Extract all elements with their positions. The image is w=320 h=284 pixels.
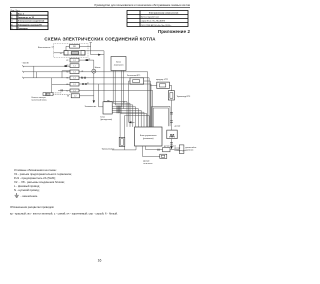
svg-text:Запальник ИТ1: Запальник ИТ1	[127, 75, 140, 77]
display sensor ДД	[167, 130, 177, 139]
svg-text:Условные обозначения на схеме:: Условные обозначения на схеме:	[14, 168, 57, 172]
cable loop to sensor ДД inner	[153, 108, 168, 127]
wire control to flame electrode	[112, 146, 136, 150]
svg-text:Блок управления: Блок управления	[140, 135, 157, 137]
wire sensor 1	[112, 107, 135, 127]
svg-text:Проверил: Проверил	[18, 28, 29, 30]
wire fuse left	[66, 46, 70, 50]
igniter ИТ1	[130, 78, 144, 84]
mains line N	[22, 71, 70, 73]
svg-text:зажигания: зажигания	[114, 65, 124, 67]
draft sensor	[160, 154, 167, 158]
connector marks on X6 wire	[82, 77, 86, 85]
tap wire junction B	[36, 72, 38, 78]
tap wire junction A	[33, 66, 35, 78]
svg-text:Заземление: Заземление	[85, 106, 98, 108]
svg-text:кр: кр	[89, 59, 91, 61]
svg-text:FU1: FU1	[73, 46, 76, 48]
svg-text:СХЕМА ЭЛЕКТРИЧЕСКИХ СОЕДИНЕНИЙ: СХЕМА ЭЛЕКТРИЧЕСКИХ СОЕДИНЕНИЙ КОТЛА	[44, 36, 156, 41]
svg-text:X1 - разъем предохранительного: X1 - разъем предохранительного терминала…	[14, 172, 72, 176]
wire control to draft sensor	[142, 146, 160, 156]
svg-text:~220 В: ~220 В	[22, 62, 30, 64]
wire ИТ2 left	[150, 84, 157, 86]
title block table (top right)	[127, 11, 188, 27]
svg-text:N - нулевой провод;: N - нулевой провод;	[14, 188, 40, 192]
header running title text	[94, 3, 190, 7]
svg-text:X5: X5	[66, 78, 68, 80]
pointer arrow into control unit	[128, 121, 134, 123]
svg-text:ДД: ДД	[170, 133, 175, 137]
svg-text:1 2: 1 2	[73, 60, 75, 62]
ground symbol in legend	[15, 193, 19, 197]
wire electrode left lead	[120, 114, 147, 138]
svg-text:L - фазовый провод;: L - фазовый провод;	[14, 184, 40, 188]
svg-text:Утверждено отделом ТК: Утверждено отделом ТК	[18, 24, 43, 26]
wire ИТ1 left to control	[129, 81, 130, 122]
svg-text:Термоэлемент: Термоэлемент	[102, 149, 115, 151]
wire ignition 2	[115, 71, 133, 127]
mains line L	[22, 65, 70, 67]
svg-text:Электросхема соединений: Электросхема соединений	[18, 20, 45, 23]
mains line PE	[22, 77, 70, 79]
level sensor	[163, 148, 171, 152]
connector X4	[66, 70, 79, 74]
wire ignition 4	[122, 71, 124, 109]
svg-text:Изм. 3: Изм. 3	[18, 14, 25, 16]
connector X7	[66, 89, 79, 92]
svg-text:- заземление.: - заземление.	[21, 195, 39, 198]
svg-text:1 2: 1 2	[74, 96, 76, 98]
wire X4 to harness	[79, 72, 148, 127]
svg-text:серии КС-Г, КС-ГВ, АОГВ: серии КС-Г, КС-ГВ, АОГВ	[141, 20, 166, 23]
svg-text:Приложение 2: Приложение 2	[158, 29, 191, 34]
svg-text:16: 16	[98, 259, 102, 263]
connector marks on sensor wires	[117, 106, 121, 113]
svg-text:тяги котла: тяги котла	[143, 163, 153, 165]
thermo fuse ИТ2	[157, 82, 170, 88]
wire top bus to ignition	[91, 54, 104, 56]
wire pump return	[99, 84, 104, 107]
title block texts	[141, 13, 179, 27]
wire X4-X5 link	[62, 71, 70, 78]
wire control to level sensor	[146, 146, 163, 150]
arrow on top bus	[98, 54, 101, 56]
svg-text:жз: жз	[87, 83, 89, 85]
svg-text:ООО ПКФ АТОН г.Кр.Луч 2013 г.: ООО ПКФ АТОН г.Кр.Луч 2013 г.	[141, 24, 172, 27]
wire X5 to harness	[79, 78, 149, 127]
svg-text:Электрическая схема котлов: Электрическая схема котлов	[149, 13, 179, 15]
svg-text:датчик: датчик	[175, 126, 181, 128]
wire ИТ3 down to sensor ДД	[170, 100, 173, 130]
svg-text:X2 ... X8 - разъемы соединения: X2 ... X8 - разъемы соединения блоков;	[14, 180, 65, 184]
wire below ДД with arrow	[170, 139, 173, 150]
flame electrode body	[119, 137, 125, 150]
svg-text:X2: X2	[66, 60, 68, 62]
switch label Выключатель	[38, 47, 54, 49]
wire X6 to harness	[79, 84, 151, 127]
pressure sensor label	[185, 147, 197, 152]
draft sensor label Датчик тяги	[143, 161, 153, 166]
fuse FU1	[70, 45, 80, 49]
svg-text:Термозонд ИТ3: Термозонд ИТ3	[177, 96, 191, 98]
svg-text:Котлы парапетные: Котлы парапетные	[141, 17, 160, 19]
wire fuse right to node L	[80, 45, 91, 47]
wire electrode right lead	[124, 116, 149, 138]
wire vertical feeder to harness	[104, 51, 127, 127]
svg-text:FU1 - предохранитель 2А (5х20): FU1 - предохранитель 2А (5х20);	[14, 176, 56, 180]
wire colour micro-labels	[81, 59, 125, 104]
cable loop to sensor ДД outer	[152, 106, 170, 127]
svg-text:1 2: 1 2	[73, 78, 75, 80]
wire X2 to pump	[79, 59, 94, 61]
wire ignition 1	[113, 71, 130, 127]
node L vertical riser	[90, 43, 92, 55]
svg-text:X6: X6	[66, 84, 68, 86]
ignition unit	[111, 57, 126, 71]
wire X1 left	[54, 52, 65, 54]
connector X5	[66, 76, 79, 80]
gas valve label	[32, 97, 48, 102]
header horizontal rule	[10, 7, 190, 9]
svg-text:Выключатель: Выключатель	[38, 47, 51, 49]
svg-text:магнитный блока: магнитный блока	[32, 99, 48, 102]
wire sensor 2	[112, 109, 138, 127]
label датчик температуры	[174, 148, 186, 152]
gas valve Клапан	[43, 93, 53, 96]
revision table row texts	[11, 14, 45, 30]
svg-text:кр: кр	[82, 70, 84, 72]
wire valve dashed	[53, 93, 71, 95]
control board dashed enclosure	[54, 44, 89, 58]
svg-text:X8: X8	[67, 96, 69, 98]
svg-text:X4: X4	[66, 72, 68, 74]
wire to pressure sensor	[170, 149, 179, 151]
svg-text:1 2: 1 2	[73, 84, 75, 86]
svg-text:(фотодатчик): (фотодатчик)	[101, 118, 113, 121]
terminal block X1	[64, 51, 85, 55]
wire X1 right	[85, 50, 104, 52]
svg-text:M: M	[93, 71, 95, 73]
svg-text:(розжигом): (розжигом)	[143, 138, 154, 140]
wire ignition 3	[120, 71, 122, 107]
wire PE branch to X6	[52, 78, 70, 93]
connector X8	[67, 94, 80, 98]
control unit	[135, 127, 163, 146]
wire X7 left stub	[58, 89, 70, 91]
connector mark on X2 wire	[86, 59, 89, 61]
connector X3	[66, 64, 79, 68]
connector mark on X3 wire	[65, 65, 67, 67]
svg-text:сер: сер	[107, 100, 110, 102]
thermo probe ИТ3	[168, 91, 174, 100]
svg-text:Блок: Блок	[116, 62, 121, 64]
revision table (left)	[11, 12, 49, 30]
svg-text:Замена кр. от 10: Замена кр. от 10	[18, 17, 35, 19]
pressure sensor	[179, 145, 184, 154]
svg-text:кр - красный; жз - желто-зеле: кр - красный; жз - желто-зеленый; с - си…	[10, 211, 118, 215]
svg-text:Обозначения расцветки проводов: Обозначения расцветки проводов:	[10, 205, 54, 209]
svg-text:1 2: 1 2	[73, 66, 75, 68]
wire ИТ1 right	[144, 81, 151, 127]
wire X7 to harness	[79, 90, 153, 127]
legend heading	[14, 168, 72, 192]
svg-text:давления: давления	[185, 150, 193, 152]
svg-text:кч: кч	[124, 102, 126, 104]
wire X8 to ground	[80, 95, 94, 97]
svg-text:Насос: Насос	[95, 67, 101, 69]
connector X2	[66, 58, 79, 62]
connector X6	[66, 82, 79, 86]
ground arrow	[93, 100, 95, 103]
sensor block (left)	[101, 102, 113, 121]
svg-text:1 2: 1 2	[73, 72, 75, 74]
wire sensor 3	[112, 110, 141, 127]
svg-text:1 2: 1 2	[73, 90, 75, 92]
svg-text:Руководство для пользователя и: Руководство для пользователя и техническ…	[94, 3, 190, 7]
svg-text:предохр. ИТ2: предохр. ИТ2	[156, 79, 168, 81]
wire sensor 4	[112, 112, 144, 127]
wire ИТ2 right	[169, 85, 171, 90]
pump motor M	[92, 60, 96, 100]
